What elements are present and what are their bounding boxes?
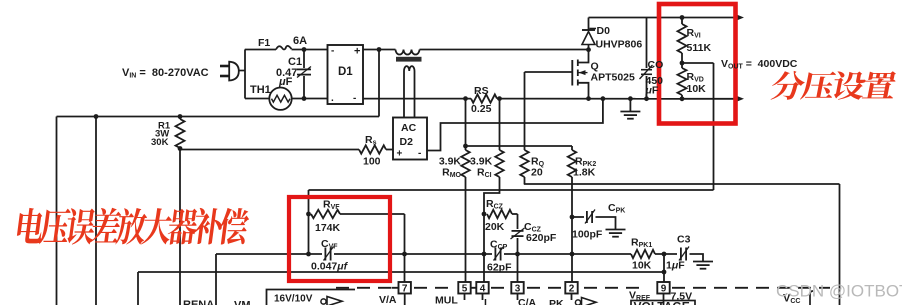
svg-text:D0: D0 [597, 25, 611, 37]
svg-text:20K: 20K [485, 221, 505, 233]
svg-text:UHVP806: UHVP806 [596, 39, 643, 51]
svg-text:1μF: 1μF [666, 260, 685, 272]
svg-text:C/A: C/A [518, 297, 537, 305]
svg-text:PK: PK [549, 298, 564, 305]
svg-text:.: . [331, 93, 334, 104]
svg-text:C3: C3 [677, 234, 691, 246]
svg-text:2: 2 [569, 284, 575, 295]
svg-text:4: 4 [480, 284, 486, 295]
svg-text:-: - [331, 46, 334, 57]
svg-text:VM: VM [234, 300, 251, 305]
svg-text:APT5025: APT5025 [591, 72, 636, 84]
svg-text:RS: RS [474, 85, 489, 97]
svg-text:174K: 174K [315, 222, 341, 234]
svg-text:-: - [353, 93, 356, 104]
svg-text:D1: D1 [338, 66, 353, 78]
svg-text:μF: μF [278, 76, 293, 88]
svg-text:CO: CO [648, 59, 664, 71]
svg-text:TH1: TH1 [250, 84, 271, 96]
svg-text:D2: D2 [400, 136, 414, 148]
svg-text:0.047μf: 0.047μf [311, 261, 349, 273]
svg-text:0.25: 0.25 [471, 103, 492, 115]
svg-text:7.5V: 7.5V [671, 291, 693, 303]
svg-text:F1: F1 [258, 37, 270, 49]
svg-text:10K: 10K [632, 260, 652, 272]
svg-text:I: I [484, 297, 487, 305]
svg-text:9: 9 [661, 284, 667, 295]
svg-text:V/A: V/A [379, 294, 397, 305]
svg-text:AC: AC [401, 122, 417, 134]
svg-text:6A: 6A [293, 35, 307, 47]
svg-text:20: 20 [531, 167, 543, 179]
svg-text:620pF: 620pF [526, 232, 557, 244]
svg-text:μF: μF [645, 85, 659, 97]
svg-text:16V/10V: 16V/10V [274, 294, 313, 305]
svg-text:-: - [418, 148, 421, 159]
svg-text:3: 3 [515, 284, 521, 295]
svg-text:CSDN @IOTBOT: CSDN @IOTBOT [776, 282, 902, 301]
svg-text:30K: 30K [151, 137, 169, 148]
svg-text:62pF: 62pF [487, 262, 512, 274]
svg-text:5: 5 [462, 284, 468, 295]
svg-text:1.8K: 1.8K [573, 167, 596, 179]
svg-text:100pF: 100pF [572, 229, 603, 241]
svg-text:10K: 10K [687, 83, 707, 95]
svg-text:511K: 511K [687, 42, 712, 54]
svg-text:+: + [397, 149, 403, 160]
svg-text:7: 7 [402, 284, 408, 295]
svg-text:100: 100 [363, 156, 381, 168]
svg-text:+: + [354, 46, 360, 58]
svg-text:RENA: RENA [183, 299, 214, 305]
